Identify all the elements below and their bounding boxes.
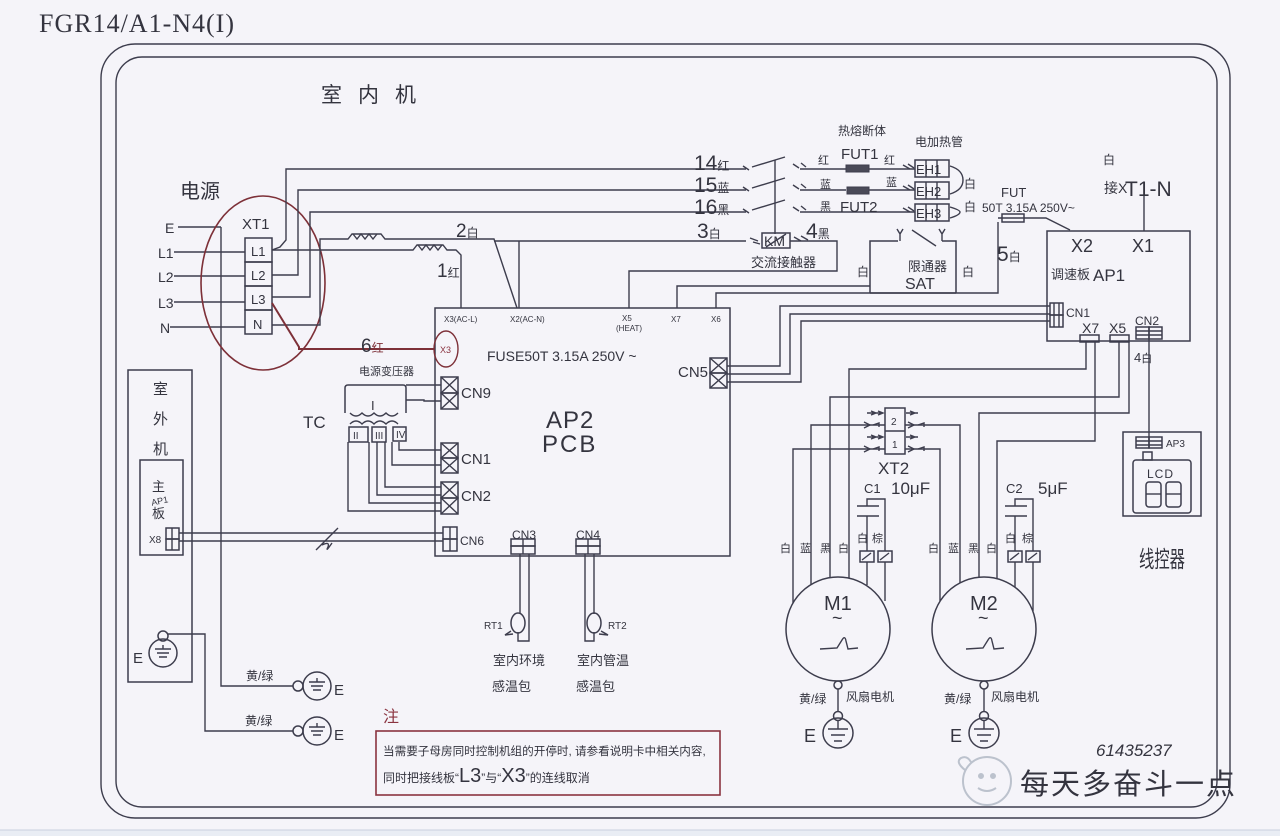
wire 1红 from L1 to X3(AC-L) with choke bbox=[272, 245, 461, 308]
svg-text:X7: X7 bbox=[1082, 320, 1099, 336]
svg-text:C1: C1 bbox=[864, 481, 881, 496]
svg-text:2: 2 bbox=[891, 417, 897, 428]
svg-text:风扇电机: 风扇电机 bbox=[846, 689, 894, 704]
terminal XT1-L2 bbox=[245, 262, 272, 286]
svg-text:50T 3.15A 250V~: 50T 3.15A 250V~ bbox=[982, 201, 1075, 215]
svg-text:黄/绿: 黄/绿 bbox=[245, 713, 272, 728]
svg-text:AP3: AP3 bbox=[1166, 439, 1185, 450]
svg-text:E: E bbox=[804, 726, 816, 746]
svg-text:CN5: CN5 bbox=[678, 364, 708, 381]
svg-text:X5: X5 bbox=[622, 314, 632, 323]
wire sec tap to CN1 pin2 bbox=[392, 442, 441, 465]
thermistor wires CN4 bbox=[585, 554, 594, 641]
transformer secondary bbox=[350, 421, 398, 424]
svg-text:黄/绿: 黄/绿 bbox=[944, 691, 971, 706]
contact KM-2 on wire 15 bbox=[743, 178, 785, 191]
wire sec tap to CN2 pin4 bbox=[348, 442, 441, 511]
wire X7 to SAT bbox=[677, 286, 870, 308]
inner border frame bbox=[116, 57, 1217, 807]
fuse FUT1 (filled) bbox=[846, 165, 869, 172]
wire XT2 row B right to M2 bbox=[905, 425, 960, 583]
svg-text:III: III bbox=[375, 431, 383, 442]
svg-text:白: 白 bbox=[857, 531, 868, 545]
svg-text:白: 白 bbox=[780, 541, 791, 555]
wire X5b down-left to M2 via 979 bbox=[979, 342, 1129, 577]
svg-text:黑: 黑 bbox=[820, 542, 831, 555]
svg-text:黑: 黑 bbox=[968, 542, 979, 555]
svg-text:FUT2: FUT2 bbox=[840, 199, 878, 216]
svg-text:E: E bbox=[165, 220, 174, 236]
connector CN6 bbox=[443, 527, 457, 539]
svg-text:X3: X3 bbox=[440, 345, 451, 355]
svg-text:X2(AC-N): X2(AC-N) bbox=[510, 315, 545, 324]
heater EH3 bbox=[915, 204, 949, 221]
svg-text:CN2: CN2 bbox=[1135, 314, 1159, 328]
fuse FUT2 (filled) bbox=[847, 187, 869, 194]
svg-text:白: 白 bbox=[857, 264, 869, 279]
svg-text:黄/绿: 黄/绿 bbox=[799, 691, 826, 706]
svg-text:C2: C2 bbox=[1006, 481, 1023, 496]
svg-text:X8: X8 bbox=[149, 535, 162, 546]
wire X5a down-left to M1 bbox=[830, 342, 1119, 578]
svg-text:E: E bbox=[950, 726, 962, 746]
wire E vertical down to ground1 bbox=[221, 227, 293, 686]
svg-text:X3(AC-L): X3(AC-L) bbox=[444, 315, 478, 324]
7-segment digits 88 bbox=[1146, 482, 1161, 507]
cable slash mark bbox=[316, 528, 338, 550]
svg-text:L1: L1 bbox=[158, 245, 174, 261]
wire 2白 from N to X2(AC-N) with choke bbox=[272, 234, 517, 325]
svg-text:当需要子母房同时控制机组的开停时, 请参看说明卡中相关内容,: 当需要子母房同时控制机组的开停时, 请参看说明卡中相关内容, bbox=[383, 744, 706, 758]
svg-text:蓝: 蓝 bbox=[800, 542, 811, 555]
merge bracket EH1-EH2 bbox=[950, 166, 963, 194]
svg-text:FUT1: FUT1 bbox=[841, 146, 879, 163]
connector CN1 (AP1) bbox=[1050, 303, 1063, 315]
contact KM-1 on wire 14 bbox=[743, 157, 785, 170]
capacitor C1 bbox=[857, 505, 879, 507]
svg-text:X1: X1 bbox=[1132, 236, 1154, 256]
board 主AP1板 box bbox=[140, 460, 183, 555]
wire X6 to FUT via SAT bottom bbox=[716, 222, 998, 308]
wire XT2 row D left to M1 bbox=[793, 449, 885, 603]
note box bbox=[376, 731, 720, 795]
svg-text:(HEAT): (HEAT) bbox=[616, 324, 642, 333]
contact KM-3 on wire 16 bbox=[743, 200, 785, 213]
SAT switch blade bbox=[912, 230, 936, 246]
wire XT2 row B left to M1 bbox=[811, 425, 885, 585]
wire CN2(AP1) down to AP3 bbox=[1148, 339, 1150, 437]
wire E horizontal bbox=[178, 226, 221, 228]
XT2 arrow stubs row A bbox=[867, 411, 883, 415]
terminal block XT2 bbox=[885, 408, 905, 454]
bottom strip bbox=[0, 830, 1280, 836]
choke teeth on 1红 bbox=[418, 245, 442, 250]
svg-text:棕: 棕 bbox=[872, 531, 883, 545]
svg-text:CN1: CN1 bbox=[461, 451, 491, 468]
contactor coil KM bbox=[762, 233, 790, 248]
terminal lugs C1 bbox=[860, 551, 874, 562]
svg-text:L1: L1 bbox=[251, 244, 265, 259]
wire 4黑 KM to X5(HEAT) bbox=[629, 241, 837, 308]
wire primary to CN9 pin1 bbox=[406, 384, 441, 386]
wire 14 from L1 up bbox=[272, 169, 746, 250]
svg-text:白: 白 bbox=[1005, 531, 1016, 545]
svg-text:白: 白 bbox=[928, 541, 939, 555]
svg-text:室: 室 bbox=[153, 381, 168, 398]
wire sec tap to CN2 pin3 bbox=[369, 442, 441, 503]
wire primary to CN9 pin2 bbox=[406, 400, 441, 401]
merge bracket EH3 bbox=[950, 207, 960, 218]
svg-text:RT1: RT1 bbox=[484, 621, 503, 632]
svg-text:~: ~ bbox=[978, 608, 989, 628]
wire N bbox=[170, 326, 245, 328]
svg-text:LCD: LCD bbox=[1147, 467, 1174, 481]
svg-text:线控器: 线控器 bbox=[1139, 546, 1185, 572]
svg-text:FUSE50T 3.15A 250V ~: FUSE50T 3.15A 250V ~ bbox=[487, 348, 637, 364]
svg-text:蓝: 蓝 bbox=[886, 176, 897, 189]
svg-text:EH3: EH3 bbox=[916, 206, 941, 221]
svg-text:感温包: 感温包 bbox=[576, 679, 615, 694]
XT2 arrow stubs row C bbox=[867, 435, 883, 439]
svg-text:红: 红 bbox=[818, 154, 829, 167]
svg-text:X2: X2 bbox=[1071, 236, 1093, 256]
connector CN2 (AP2) bbox=[441, 482, 458, 498]
svg-text:EH2: EH2 bbox=[916, 184, 941, 199]
board AP1 box bbox=[1047, 231, 1190, 341]
wire 16 from L3 up bbox=[272, 212, 746, 297]
ground M2 bbox=[980, 712, 989, 721]
node X3 red circle bbox=[434, 331, 458, 367]
svg-text:机: 机 bbox=[153, 441, 168, 458]
terminal XT1-N bbox=[245, 310, 272, 334]
svg-text:L3: L3 bbox=[251, 292, 265, 307]
SAT terminal stubs with arrows bbox=[897, 229, 903, 241]
board AP2 PCB box bbox=[435, 308, 730, 556]
terminal lugs C2 bbox=[1008, 551, 1022, 562]
svg-text:每天多奋斗一点: 每天多奋斗一点 bbox=[1020, 768, 1237, 801]
ground in outdoor unit bbox=[158, 631, 168, 641]
svg-text:RT2: RT2 bbox=[608, 621, 627, 632]
wire 3白 X2(AC-N) to KM coil bbox=[494, 241, 746, 308]
svg-text:热熔断体: 热熔断体 bbox=[838, 123, 886, 138]
motor M2 bbox=[932, 577, 1036, 681]
svg-text:N: N bbox=[160, 320, 170, 336]
secondary winding III bbox=[372, 427, 386, 442]
svg-text:E: E bbox=[133, 650, 143, 667]
connector CN5 bbox=[710, 358, 727, 373]
svg-text:FGR14/A1-N4(I): FGR14/A1-N4(I) bbox=[39, 9, 235, 38]
svg-text:L2: L2 bbox=[251, 268, 265, 283]
svg-text:注: 注 bbox=[383, 708, 399, 726]
wire 6红 from L3 to X3 (red) bbox=[272, 303, 434, 349]
LCD box bbox=[1133, 460, 1191, 513]
connector CN9 bbox=[441, 377, 458, 393]
wire L1 bbox=[174, 251, 245, 253]
svg-text:N: N bbox=[253, 317, 262, 332]
wire L3 bbox=[174, 301, 245, 303]
svg-text:白: 白 bbox=[964, 199, 976, 214]
svg-text:L2: L2 bbox=[158, 269, 174, 285]
terminal X7 (AP1) bbox=[1080, 335, 1099, 342]
svg-text:感温包: 感温包 bbox=[492, 679, 531, 694]
svg-text:X6: X6 bbox=[711, 315, 721, 324]
ground symbol 1 bbox=[293, 681, 303, 691]
terminal XT1-L3 bbox=[245, 286, 272, 310]
terminal XT1-L1 bbox=[245, 238, 272, 262]
svg-text:室内管温: 室内管温 bbox=[577, 653, 629, 668]
wires CN5 to CN1 of AP1 bbox=[727, 306, 1050, 366]
svg-text:电源: 电源 bbox=[180, 180, 220, 203]
capacitor C2 bbox=[1005, 505, 1027, 507]
svg-text:电加热管: 电加热管 bbox=[915, 134, 963, 149]
secondary winding IV bbox=[393, 427, 406, 441]
svg-text:T1-N: T1-N bbox=[1125, 178, 1172, 201]
svg-text:红: 红 bbox=[884, 154, 895, 167]
wire X7a down-left to M1 area bbox=[849, 342, 1086, 578]
svg-text:室内机: 室内机 bbox=[321, 84, 432, 107]
svg-text:E: E bbox=[334, 727, 344, 744]
stub AP3 to LCD bbox=[1143, 452, 1152, 460]
svg-text:板: 板 bbox=[152, 506, 165, 521]
svg-text:XT1: XT1 bbox=[242, 216, 270, 233]
wire X1 of AP1 up to XT1-N bbox=[1143, 196, 1145, 231]
svg-text:PCB: PCB bbox=[542, 431, 597, 458]
svg-text:蓝: 蓝 bbox=[820, 178, 831, 191]
svg-text:白: 白 bbox=[1103, 152, 1115, 167]
svg-text:FUT: FUT bbox=[1001, 185, 1026, 200]
svg-text:61435237: 61435237 bbox=[1096, 741, 1172, 760]
svg-text:5μF: 5μF bbox=[1038, 479, 1068, 498]
wire sec tap to CN2 pin1 bbox=[385, 442, 441, 487]
svg-text:1: 1 bbox=[892, 440, 898, 451]
svg-text:CN9: CN9 bbox=[461, 385, 491, 402]
svg-text:限通器: 限通器 bbox=[908, 259, 947, 274]
thermistor RT2 bbox=[587, 613, 601, 633]
ellipse marker around XT1 (red) bbox=[201, 196, 325, 370]
svg-text:X5: X5 bbox=[1109, 320, 1126, 336]
wire sec tap to CN1 pin1 bbox=[399, 442, 441, 450]
svg-text:10μF: 10μF bbox=[891, 479, 930, 498]
heater EH2 bbox=[915, 182, 949, 199]
wire fuse to X2 of AP1 bbox=[998, 218, 1070, 230]
motor M1 bbox=[786, 577, 890, 681]
svg-text:黑: 黑 bbox=[820, 200, 831, 213]
chevrons at KM coil bbox=[750, 236, 808, 244]
svg-text:L3: L3 bbox=[158, 295, 174, 311]
motor M2 ground wire bbox=[980, 681, 988, 689]
svg-text:白: 白 bbox=[986, 541, 997, 555]
watermark logo bbox=[959, 757, 1011, 805]
svg-text:蓝: 蓝 bbox=[948, 542, 959, 555]
svg-text:白: 白 bbox=[964, 176, 976, 191]
connector CN2 (AP1) bbox=[1136, 327, 1149, 339]
motor M1 ground wire bbox=[834, 681, 842, 689]
svg-text:白: 白 bbox=[962, 264, 974, 279]
thermistor RT1 bbox=[511, 613, 525, 633]
svg-text:调速板: 调速板 bbox=[1051, 267, 1090, 282]
wire controller outer box bbox=[1123, 432, 1201, 516]
svg-text:黄/绿: 黄/绿 bbox=[246, 668, 273, 683]
heater EH1 bbox=[915, 160, 949, 177]
ground M1 bbox=[834, 712, 843, 721]
wire 15 from L2 up bbox=[272, 190, 746, 275]
relay SAT box bbox=[870, 241, 898, 293]
svg-text:XT2: XT2 bbox=[878, 459, 909, 478]
choke teeth on 2白 bbox=[353, 234, 377, 239]
svg-text:CN2: CN2 bbox=[461, 488, 491, 505]
svg-text:白: 白 bbox=[838, 541, 849, 555]
svg-text:IV: IV bbox=[396, 430, 406, 441]
wire X7b down-left to M2 bbox=[997, 342, 1095, 579]
wire sec tap to CN2 pin2 bbox=[377, 442, 441, 495]
svg-text:棕: 棕 bbox=[1022, 531, 1033, 545]
ground symbol 2 bbox=[293, 726, 303, 736]
svg-text:E: E bbox=[334, 682, 344, 699]
svg-text:CN3: CN3 bbox=[512, 528, 536, 542]
wire XT2 row D right to M2 bbox=[905, 449, 940, 601]
svg-text:AP2: AP2 bbox=[546, 407, 594, 434]
svg-text:EH1: EH1 bbox=[916, 162, 941, 177]
wire L2 bbox=[174, 275, 245, 277]
KM linkage vertical bbox=[774, 160, 776, 234]
wire X8 to CN6 (pair) bbox=[179, 532, 443, 534]
svg-text:外: 外 bbox=[153, 411, 168, 428]
svg-text:风扇电机: 风扇电机 bbox=[991, 689, 1039, 704]
transformer primary bbox=[345, 385, 406, 413]
svg-text:I: I bbox=[371, 398, 375, 413]
thermistor wires CN3 bbox=[519, 554, 521, 614]
svg-text:TC: TC bbox=[303, 413, 326, 432]
svg-text:CN6: CN6 bbox=[460, 534, 484, 548]
svg-text:AP1: AP1 bbox=[1093, 266, 1125, 285]
svg-text:主: 主 bbox=[152, 479, 165, 494]
svg-text:交流接触器: 交流接触器 bbox=[751, 255, 816, 270]
svg-text:~: ~ bbox=[832, 608, 843, 628]
wire outdoor ground to ground2 bbox=[168, 634, 293, 731]
svg-text:CN1: CN1 bbox=[1066, 306, 1090, 320]
svg-text:SAT: SAT bbox=[905, 276, 935, 293]
terminal X5 (AP1) bbox=[1110, 335, 1129, 342]
connector AP3 bbox=[1136, 437, 1149, 448]
svg-text:X7: X7 bbox=[671, 315, 681, 324]
svg-text:电源变压器: 电源变压器 bbox=[359, 364, 414, 378]
outdoor unit box 室外机 bbox=[128, 370, 192, 682]
svg-text:室内环境: 室内环境 bbox=[493, 653, 545, 668]
svg-text:II: II bbox=[353, 431, 359, 442]
connector CN1 (AP2) bbox=[441, 443, 458, 458]
secondary winding II bbox=[349, 427, 368, 442]
